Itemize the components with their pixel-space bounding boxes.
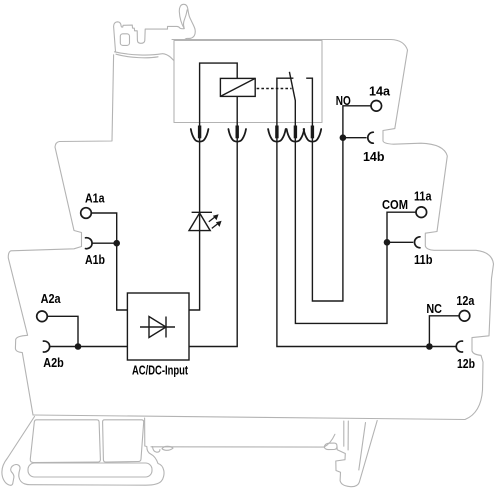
svg-text:AC/DC-Input: AC/DC-Input	[132, 363, 188, 378]
svg-text:NC: NC	[426, 301, 442, 316]
svg-text:A1b: A1b	[85, 252, 105, 267]
svg-text:A1a: A1a	[85, 190, 105, 205]
svg-text:11b: 11b	[414, 252, 433, 267]
svg-text:12a: 12a	[456, 293, 475, 308]
svg-text:COM: COM	[382, 197, 408, 212]
svg-text:14b: 14b	[363, 149, 385, 164]
svg-text:12b: 12b	[457, 356, 475, 371]
svg-text:A2b: A2b	[43, 355, 64, 370]
svg-text:11a: 11a	[414, 188, 432, 203]
svg-text:NO: NO	[336, 93, 351, 108]
svg-text:A2a: A2a	[41, 291, 62, 306]
svg-text:14a: 14a	[369, 83, 391, 98]
